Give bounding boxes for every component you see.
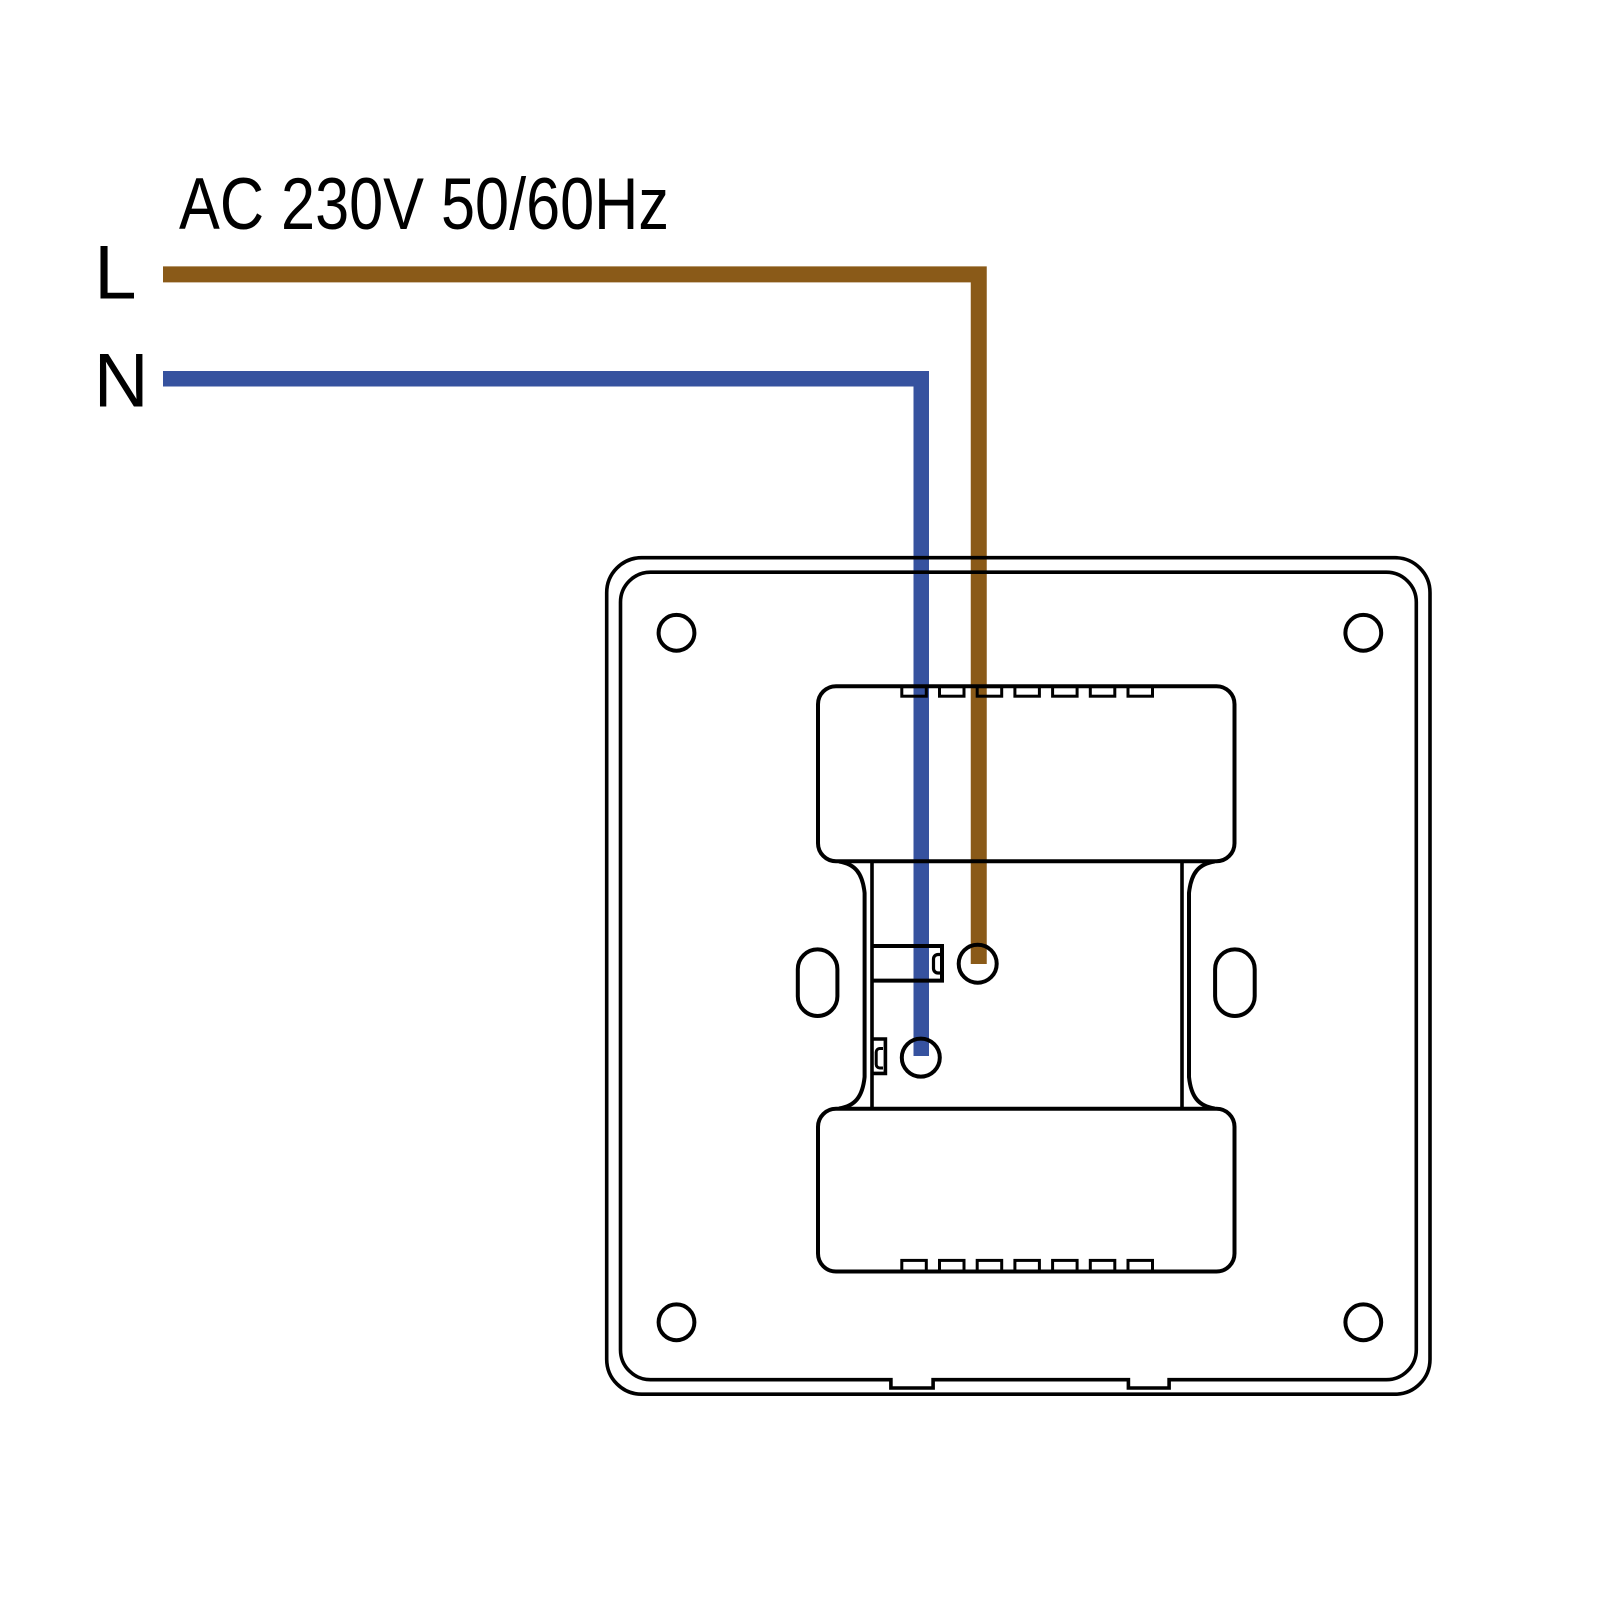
module waist right contour (1189, 862, 1215, 1109)
terminal N (902, 1039, 940, 1077)
module bottom section (818, 1109, 1235, 1272)
screw hole bottom-left (659, 1304, 695, 1340)
plate inner outline with bottom clips (621, 572, 1417, 1388)
svg-text:AC 230V 50/60Hz: AC 230V 50/60Hz (179, 164, 669, 245)
module inner frame left edge (870, 862, 874, 1109)
wire N (blue neutral) (163, 379, 921, 1056)
module waist left contour (839, 862, 865, 1109)
svg-text:N: N (94, 339, 149, 424)
clip terminal L (934, 955, 943, 974)
screw hole top-right (1345, 615, 1381, 651)
mounting slot left (798, 949, 838, 1016)
module inner frame right edge (1180, 862, 1184, 1109)
clamp terminal N (872, 1039, 885, 1073)
vent slots top (902, 687, 1153, 697)
clamp terminal L (872, 946, 942, 981)
svg-text:L: L (94, 231, 136, 316)
screw hole top-left (659, 615, 695, 651)
screw hole bottom-right (1345, 1304, 1381, 1340)
clip terminal N (876, 1049, 883, 1069)
terminal L (959, 945, 997, 983)
vent slots bottom (902, 1260, 1153, 1271)
module top section (818, 686, 1235, 861)
mounting slot right (1215, 949, 1255, 1016)
plate outer outline (607, 558, 1430, 1394)
wire L (brown live) (163, 274, 979, 964)
